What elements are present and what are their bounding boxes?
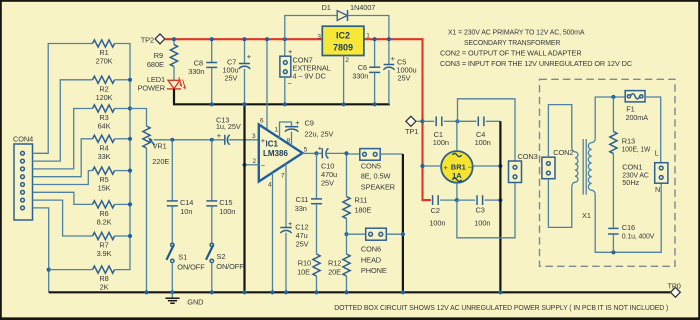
svg-text:GND: GND xyxy=(187,298,203,307)
svg-text:CON3 = INPUT FOR THE 12V UNREG: CON3 = INPUT FOR THE 12V UNREGULATED OR … xyxy=(440,59,633,68)
svg-text:R11: R11 xyxy=(355,196,368,205)
switch S1 xyxy=(167,243,206,292)
node BR1 minus ground bottom xyxy=(498,290,502,294)
wire CON2 top to secondary xyxy=(548,105,571,158)
svg-text:200mA: 200mA xyxy=(626,113,648,122)
wire primary bottom bracket xyxy=(595,183,661,252)
svg-text:POWER: POWER xyxy=(138,84,165,93)
svg-text:7: 7 xyxy=(281,172,285,179)
connector CON7 xyxy=(280,39,331,104)
resistor R3 xyxy=(93,105,115,131)
wire R1 right to summing bus xyxy=(115,44,131,270)
wire +9V red rail xyxy=(165,38,322,40)
node AC top junction xyxy=(455,119,459,123)
svg-text:8E, 0.5W: 8E, 0.5W xyxy=(361,171,391,180)
node pin2 ground tee xyxy=(242,163,246,167)
node R7 junction xyxy=(128,234,132,238)
svg-text:180E: 180E xyxy=(354,205,371,214)
transformer X1 xyxy=(572,139,595,220)
svg-text:+: + xyxy=(288,219,292,228)
resistor R2 xyxy=(93,76,115,102)
svg-text:33K: 33K xyxy=(98,152,111,161)
wire VR1 wiper audio line xyxy=(154,139,225,141)
wire R3 right xyxy=(115,108,131,110)
svg-text:100E, 1W: 100E, 1W xyxy=(622,145,651,154)
svg-text:330n: 330n xyxy=(188,67,204,76)
svg-text:50Hz: 50Hz xyxy=(622,178,639,187)
resistor R5 xyxy=(93,167,115,193)
node wiper-C14 junction xyxy=(170,138,174,142)
svg-text:10E: 10E xyxy=(297,267,310,276)
wire CON4 pin1 to R1 xyxy=(33,44,93,154)
wire BR1 top stub xyxy=(456,121,458,151)
svg-text:+: + xyxy=(391,54,395,63)
resistor R9 xyxy=(147,39,178,80)
svg-text:F1: F1 xyxy=(626,105,634,114)
capacitor C9 xyxy=(280,118,334,146)
capacitor C7 xyxy=(222,39,251,104)
svg-text:CON4: CON4 xyxy=(13,135,33,144)
node S2 bottom xyxy=(210,290,214,294)
capacitor C11 xyxy=(295,153,322,254)
wire BR1 minus xyxy=(473,165,501,167)
diode D1 1N4007 xyxy=(285,3,389,39)
wire IC2 pin2 ground xyxy=(343,56,345,105)
svg-text:100n: 100n xyxy=(474,218,490,227)
svg-text:0.1u, 400V: 0.1u, 400V xyxy=(622,231,655,240)
wire primary top xyxy=(595,97,625,139)
ground rail speaker (black vertical) xyxy=(402,154,404,292)
node R10 bottom xyxy=(314,290,318,294)
potentiometer VR1 xyxy=(130,109,169,293)
wire BR1 bottom stub xyxy=(456,183,458,200)
svg-text:CON3: CON3 xyxy=(518,152,538,161)
node C8 top xyxy=(210,37,214,41)
wire CON4 pin4 to R4 xyxy=(33,139,93,177)
node output junction xyxy=(314,151,318,155)
fuse F1 xyxy=(625,91,648,123)
node C6 top xyxy=(373,37,377,41)
svg-text:X1 = 230V AC PRIMARY TO 12V AC: X1 = 230V AC PRIMARY TO 12V AC, 500mA xyxy=(448,27,585,36)
svg-text:SPEAKER: SPEAKER xyxy=(361,182,395,191)
wire BR1 plus xyxy=(423,165,442,167)
node pin4 bottom xyxy=(270,290,274,294)
bridge rectifier BR1 xyxy=(441,151,473,183)
node AC bottom junction xyxy=(455,198,459,202)
capacitor C1 xyxy=(423,116,458,147)
wire LED cathode to ground bus xyxy=(173,89,175,104)
svg-text:3: 3 xyxy=(317,33,321,40)
capacitor C12 on pin7 xyxy=(280,164,308,293)
svg-text:1N4007: 1N4007 xyxy=(350,3,375,12)
svg-text:6: 6 xyxy=(260,118,264,125)
svg-text:330n: 330n xyxy=(352,72,368,81)
svg-text:33n: 33n xyxy=(295,204,307,213)
resistor R4 xyxy=(93,135,115,161)
test point TP0 xyxy=(668,281,681,297)
svg-text:TP1: TP1 xyxy=(405,127,418,136)
node R6 junction xyxy=(128,202,132,206)
wire AC bottom to CON3 xyxy=(457,183,515,238)
svg-text:15K: 15K xyxy=(98,184,111,193)
svg-text:C14: C14 xyxy=(180,198,193,207)
svg-text:S1: S1 xyxy=(178,253,187,262)
svg-text:R9: R9 xyxy=(154,51,163,60)
node CON7 minus xyxy=(283,102,287,106)
connector CON6 headphone xyxy=(347,228,403,275)
svg-text:100n: 100n xyxy=(219,207,235,216)
node R11 top junction xyxy=(344,151,348,155)
capacitor C5 xyxy=(383,39,416,104)
node pin6 supply tap xyxy=(265,37,269,41)
svg-text:680E: 680E xyxy=(147,60,164,69)
wire CON4 pin6 to R6 xyxy=(33,192,93,204)
svg-text:C15: C15 xyxy=(219,198,232,207)
resistor R13 xyxy=(610,97,651,228)
svg-text:3.9K: 3.9K xyxy=(97,249,112,258)
svg-text:X1: X1 xyxy=(582,211,591,220)
svg-text:C11: C11 xyxy=(296,195,309,204)
svg-text:100n: 100n xyxy=(429,218,445,227)
node S1 bottom xyxy=(170,290,174,294)
node R12 top junction xyxy=(344,232,348,236)
svg-text:100n: 100n xyxy=(433,138,449,147)
node speaker ground bottom xyxy=(401,290,405,294)
svg-text:2: 2 xyxy=(345,57,349,64)
svg-text:220E: 220E xyxy=(152,157,169,166)
capacitor C16 xyxy=(608,223,654,253)
capacitor C15 xyxy=(206,140,235,243)
svg-text:D1: D1 xyxy=(322,3,331,12)
node BR1 minus junction xyxy=(498,164,502,168)
ground rail BR1 minus (black vertical) xyxy=(499,121,501,292)
node R9 top xyxy=(172,37,176,41)
node middle ground rail bottom xyxy=(242,290,246,294)
node C7 top xyxy=(242,37,246,41)
wire R6 right xyxy=(115,203,131,205)
svg-text:DOTTED BOX CIRCUIT SHOWS 12V A: DOTTED BOX CIRCUIT SHOWS 12V AC UNREGULA… xyxy=(334,303,668,312)
svg-text:100n: 100n xyxy=(475,138,491,147)
capacitor C3 xyxy=(457,195,501,227)
svg-text:8: 8 xyxy=(287,138,291,145)
svg-text:20E: 20E xyxy=(328,267,341,276)
svg-text:TP0: TP0 xyxy=(668,281,681,290)
wire red rail after IC2 xyxy=(364,39,431,200)
node BR1 plus on red rail xyxy=(420,164,424,168)
resistor R8 xyxy=(93,266,115,292)
node C3 right junction xyxy=(498,198,502,202)
connector CON4 xyxy=(13,135,33,221)
svg-text:7809: 7809 xyxy=(333,43,353,53)
svg-text:−: − xyxy=(468,163,472,172)
node C16 bottom xyxy=(611,250,615,254)
connector CON5 speaker xyxy=(347,149,403,192)
svg-text:+: + xyxy=(443,163,447,172)
wire IC1 pin5 output xyxy=(303,152,318,154)
node top of middle ground rail xyxy=(242,102,246,106)
svg-text:+: + xyxy=(318,143,322,152)
svg-text:25V: 25V xyxy=(224,74,237,83)
op-amp IC1 LM386 xyxy=(252,118,308,189)
node TP1 red rail tee xyxy=(420,119,424,123)
svg-text:ON/OFF: ON/OFF xyxy=(177,262,205,271)
node C8 bottom xyxy=(210,102,214,106)
svg-text:C2: C2 xyxy=(431,206,440,215)
svg-text:−: − xyxy=(261,161,265,170)
connector CON1 230V AC xyxy=(622,148,668,193)
ground bus bottom (black) xyxy=(49,291,671,293)
wire CON4 pin8 to R8 and ground bus xyxy=(33,208,49,292)
svg-text:10n: 10n xyxy=(180,207,192,216)
node R2 junction xyxy=(128,78,132,82)
svg-text:1: 1 xyxy=(274,127,278,134)
svg-text:IC1: IC1 xyxy=(266,140,279,149)
wire IC1 pin4 to ground xyxy=(272,172,274,292)
svg-text:1u, 25V: 1u, 25V xyxy=(216,122,241,131)
svg-text:270K: 270K xyxy=(96,57,113,66)
svg-text:−: − xyxy=(287,79,291,88)
node wiper-C15 junction xyxy=(210,138,214,142)
svg-text:CON2 = OUTPUT OF THE WALL ADAP: CON2 = OUTPUT OF THE WALL ADAPTER xyxy=(440,49,582,58)
node R4 junction xyxy=(128,137,132,141)
wire CON2 bottom to secondary xyxy=(548,179,571,228)
wire IC1 pin2 to ground rail xyxy=(245,164,259,166)
capacitor C4 xyxy=(458,116,501,147)
svg-text:64K: 64K xyxy=(98,122,111,131)
resistor R12 xyxy=(328,234,350,292)
wire CON4 pin5 to R5 xyxy=(33,171,93,185)
svg-text:25V: 25V xyxy=(398,73,411,82)
svg-text:HEAD: HEAD xyxy=(361,255,381,264)
wire CON4 pin3 to R3 xyxy=(33,109,93,169)
svg-text:R12: R12 xyxy=(328,258,341,267)
capacitor C2 xyxy=(429,195,457,227)
node R3 junction xyxy=(128,106,132,110)
dotted box 12V AC unregulated supply xyxy=(540,79,676,266)
wire R5 right xyxy=(115,170,131,172)
svg-text:4 – 9V DC: 4 – 9V DC xyxy=(293,71,327,80)
svg-text:8.2K: 8.2K xyxy=(97,217,112,226)
connector CON2 xyxy=(542,148,574,179)
svg-text:VR1: VR1 xyxy=(153,142,167,151)
svg-text:CON5: CON5 xyxy=(361,161,381,170)
svg-text:PHONE: PHONE xyxy=(361,266,387,275)
node R13 top xyxy=(611,95,615,99)
svg-text:120K: 120K xyxy=(96,93,113,102)
wire R7 right xyxy=(115,235,131,237)
svg-text:4: 4 xyxy=(268,181,272,188)
capacitor C8 xyxy=(188,39,217,104)
svg-text:IC2: IC2 xyxy=(336,31,350,41)
svg-text:R10: R10 xyxy=(298,258,311,267)
capacitor C10 xyxy=(317,143,347,187)
ground rail middle (black vertical) xyxy=(243,104,245,292)
note X1 transformer annotation xyxy=(440,27,633,68)
svg-text:3: 3 xyxy=(252,133,256,140)
svg-text:SECONDARY TRANSFORMER: SECONDARY TRANSFORMER xyxy=(464,38,560,47)
node C12 bottom xyxy=(284,290,288,294)
wire CON4 pin2 to R2 xyxy=(33,80,93,161)
svg-text:C3: C3 xyxy=(476,206,485,215)
wire R8 left xyxy=(49,269,93,271)
resistor R10 xyxy=(297,254,320,292)
node C5 top xyxy=(387,37,391,41)
capacitor C14 xyxy=(167,140,193,243)
test point TP2 xyxy=(141,34,165,45)
resistor R6 xyxy=(93,201,115,227)
ground bus upper (black) xyxy=(173,103,390,105)
connector CON3 xyxy=(509,152,538,183)
svg-text:S2: S2 xyxy=(217,252,226,261)
regulator IC2 7809 xyxy=(317,26,370,64)
svg-text:25V: 25V xyxy=(321,178,334,187)
LED LED1 xyxy=(138,75,186,93)
capacitor C13 xyxy=(216,115,259,145)
svg-text:L: L xyxy=(655,148,659,157)
test point TP1 xyxy=(405,116,423,136)
svg-text:+: + xyxy=(247,52,251,61)
wire R2 right xyxy=(115,79,131,81)
svg-text:+: + xyxy=(261,136,265,145)
wire IC1 pin6 supply xyxy=(266,39,268,129)
node VR1 bottom xyxy=(144,290,148,294)
svg-text:ON/OFF: ON/OFF xyxy=(216,262,244,271)
capacitor C6 xyxy=(352,39,380,104)
svg-text:TP2: TP2 xyxy=(141,36,154,45)
wire fuse to CON1 xyxy=(645,97,661,163)
node CON7 plus xyxy=(283,37,287,41)
svg-text:2: 2 xyxy=(252,158,256,165)
ground symbol GND xyxy=(165,292,203,306)
resistor R11 xyxy=(343,153,372,234)
svg-text:25V: 25V xyxy=(296,240,309,249)
svg-text:22u, 25V: 22u, 25V xyxy=(305,129,334,138)
svg-text:+: + xyxy=(295,118,299,127)
wire CON4 pin7 to R7 xyxy=(33,200,93,236)
wire R4 right xyxy=(115,138,131,140)
resistor R1 xyxy=(93,40,115,66)
svg-text:CON2: CON2 xyxy=(553,148,573,157)
svg-text:+: + xyxy=(217,131,221,140)
switch S2 xyxy=(206,243,244,292)
svg-text:C10: C10 xyxy=(321,161,334,170)
resistor R7 xyxy=(93,232,115,258)
node C7 bottom xyxy=(242,102,246,106)
node R8 to ground riser junction xyxy=(47,268,51,272)
svg-text:C9: C9 xyxy=(305,119,314,128)
node C6 bottom xyxy=(373,102,377,106)
node R5 junction xyxy=(128,169,132,173)
svg-text:CON6: CON6 xyxy=(361,244,381,253)
wire AC top to CON3 xyxy=(458,99,516,161)
svg-text:2K: 2K xyxy=(100,283,109,292)
svg-text:1: 1 xyxy=(366,33,370,40)
svg-text:N: N xyxy=(655,185,660,194)
svg-text:5: 5 xyxy=(304,146,308,153)
node R12 bottom xyxy=(344,290,348,294)
node CON6 right junction xyxy=(401,232,405,236)
node IC2 pin2 ground xyxy=(342,102,346,106)
svg-text:LM386: LM386 xyxy=(263,149,288,158)
